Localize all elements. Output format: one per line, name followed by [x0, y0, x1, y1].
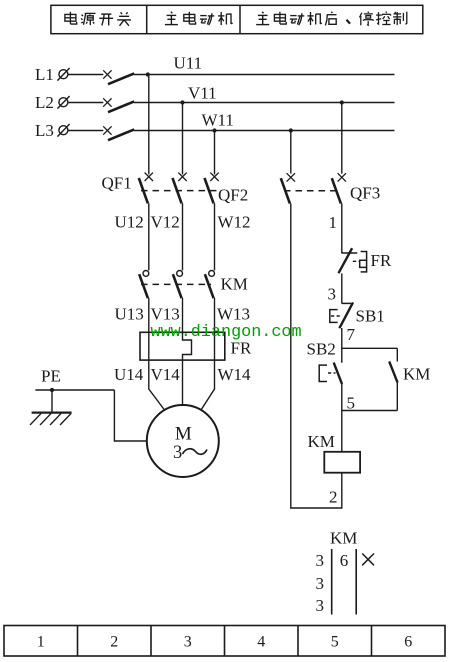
wire U11 drop to QF1 [148, 75, 150, 175]
svg-text:W13: W13 [217, 305, 250, 324]
button SB1 NC bar [342, 302, 351, 304]
KM contact table divider 1 [331, 549, 333, 615]
wire L2 to switch [68, 102, 103, 104]
terminal L1 [57, 68, 69, 81]
wire branch right drop [396, 348, 398, 361]
breaker QF3 pole 1 contact x [287, 173, 295, 181]
wire SB1 to node 7 [341, 328, 343, 363]
svg-text:U14: U14 [114, 365, 144, 384]
switch QS pole 3 blade [108, 129, 134, 140]
svg-text:3: 3 [316, 574, 325, 593]
FR NC contact bar [342, 252, 358, 254]
terminal L3 [57, 124, 69, 137]
switch QS pole 3 contact x [103, 126, 111, 134]
svg-text:QF2: QF2 [218, 186, 248, 205]
svg-text:3: 3 [328, 284, 337, 303]
svg-text:6: 6 [340, 551, 349, 570]
wire U11 [134, 74, 395, 76]
svg-text:2: 2 [329, 488, 338, 507]
svg-text:3: 3 [316, 596, 325, 615]
header cell3 label (CJK, main motor start/stop control) [256, 12, 407, 26]
svg-text:KM: KM [308, 432, 335, 451]
svg-text:KM: KM [330, 529, 357, 548]
KM contact table divider 2 [355, 549, 357, 615]
button SB2 blade [334, 363, 342, 384]
breaker QF1 pole 2 contact x [178, 173, 186, 181]
svg-text:L1: L1 [35, 65, 54, 84]
coil KM rectangle [324, 452, 360, 473]
svg-text:QF3: QF3 [350, 184, 380, 203]
FR trip actuator symbol [360, 251, 367, 273]
svg-text:www.diangon.com: www.diangon.com [151, 323, 302, 342]
wire L1 to switch [68, 74, 103, 76]
header cell2 label (CJK, main motor) [165, 12, 233, 25]
breaker QF1 pole 1 contact x [145, 173, 153, 181]
svg-text:4: 4 [257, 633, 265, 650]
wire control bottom return [290, 507, 342, 509]
svg-text:V11: V11 [188, 84, 217, 103]
svg-text:V13: V13 [151, 305, 180, 324]
junction dot L2/V11 left [180, 100, 184, 104]
wire V12 [182, 203, 184, 270]
switch QS pole 1 blade [108, 73, 134, 84]
svg-text:6: 6 [404, 633, 412, 650]
contactor KM linkage dashed [141, 283, 211, 285]
wire W13 [214, 298, 216, 332]
thermal relay FR heater right wire [214, 332, 216, 360]
contactor KM pole 1 fixed contact circle [143, 271, 149, 277]
breaker QF3 linkage dashed [284, 190, 339, 192]
bottom zone table frame [4, 626, 445, 657]
svg-text:V14: V14 [151, 365, 181, 384]
wire V14 [182, 360, 184, 405]
svg-text:QF1: QF1 [102, 174, 132, 193]
contactor KM pole 2 fixed contact circle [177, 271, 183, 277]
motor M1 circle [147, 405, 219, 477]
wire coil to node 2 [341, 473, 343, 508]
wire KM aux to branch bottom [396, 382, 398, 410]
svg-text:W14: W14 [218, 365, 252, 384]
breaker QF1 pole 1 blade [139, 178, 148, 203]
svg-text:PE: PE [41, 367, 61, 386]
header table frame [51, 5, 423, 33]
wire QF3 to FR contact [341, 203, 343, 253]
contactor KM pole 1 blade [139, 274, 148, 298]
FR actuator dashed link [353, 260, 359, 262]
breaker QF1 pole 2 blade [173, 178, 182, 203]
wire V11 drop to QF3 [341, 103, 343, 174]
wire V11 [134, 102, 395, 104]
svg-text:KM: KM [221, 275, 248, 294]
switch QS pole 1 contact x [103, 70, 111, 78]
svg-text:3: 3 [184, 633, 192, 650]
breaker QF3 pole 2 blade [332, 178, 341, 203]
svg-text:V12: V12 [151, 213, 180, 232]
contact KM aux blade [389, 361, 397, 382]
svg-text:5: 5 [347, 394, 356, 413]
svg-text:KM: KM [403, 365, 430, 384]
svg-text:U11: U11 [174, 53, 203, 72]
wire L3 to switch [68, 130, 103, 132]
svg-text:3: 3 [316, 551, 325, 570]
button SB1 actuator [330, 309, 338, 323]
svg-text:M: M [175, 424, 192, 445]
breaker QF3 pole 1 blade [281, 178, 290, 203]
breaker QF2 pole 3 blade [205, 178, 214, 203]
wire PE to motor frame [114, 390, 146, 441]
ground symbol bar [32, 412, 72, 414]
svg-text:3: 3 [173, 443, 182, 463]
wire V13 [182, 298, 184, 332]
wire SB2 to node 5 [341, 384, 343, 452]
contactor KM pole 2 blade [173, 274, 182, 298]
thermal relay FR box [140, 332, 225, 360]
breaker QF1-QF2 linkage dashed [141, 190, 218, 192]
svg-text:U13: U13 [115, 305, 144, 324]
junction dot L3/W11 left [212, 128, 216, 132]
svg-text:U12: U12 [115, 213, 144, 232]
thermal relay FR heater left wire [148, 332, 150, 360]
junction dot L1/U11 [146, 72, 150, 76]
svg-text:L3: L3 [35, 121, 54, 140]
wire PE horizontal [35, 389, 114, 391]
svg-text:FR: FR [371, 251, 392, 270]
contactor KM pole 3 blade [205, 274, 214, 298]
svg-text:7: 7 [347, 325, 356, 344]
FR NC contact blade [339, 248, 353, 273]
button SB2 actuator [319, 364, 327, 382]
svg-text:5: 5 [331, 633, 339, 650]
wire branch bottom [342, 410, 398, 412]
ground symbol stem [51, 390, 53, 412]
svg-text:SB1: SB1 [356, 307, 385, 326]
wire branch top [342, 347, 398, 349]
wire U12 [148, 203, 150, 270]
junction dot W11 control tap [289, 128, 293, 132]
switch QS pole 2 contact x [103, 98, 111, 106]
wire W11 drop to QF3 [290, 131, 292, 174]
junction dot PE [50, 388, 54, 392]
junction dot V11 control tap [340, 100, 344, 104]
contactor KM pole 3 fixed contact circle [209, 271, 215, 277]
wire control return left [290, 203, 292, 508]
terminal L2 [57, 96, 69, 109]
wire FR to SB1 [341, 273, 343, 303]
breaker QF2 pole 3 contact x [210, 173, 218, 181]
button SB2 actuator dashed link [328, 372, 336, 374]
wire V11 drop to QF1 [182, 103, 184, 175]
header cell1 label (CJK, power switch) [65, 12, 131, 26]
button SB1 actuator dashed link [331, 315, 341, 317]
svg-text:1: 1 [37, 633, 45, 650]
wire U14 [149, 360, 165, 410]
wire W12 [214, 203, 216, 270]
svg-text:SB2: SB2 [307, 340, 336, 359]
button SB1 blade [339, 302, 353, 328]
KM contact table value x [362, 554, 374, 566]
svg-text:2: 2 [110, 633, 118, 650]
wire U13 [148, 298, 150, 332]
ground symbol hatching [30, 414, 71, 426]
wire W11 [134, 130, 395, 132]
svg-text:W12: W12 [218, 213, 251, 232]
breaker QF3 pole 2 contact x [338, 173, 346, 181]
switch QS pole 2 blade [108, 101, 134, 112]
wire W14 [201, 360, 215, 410]
wire W11 drop to QF1 [214, 131, 216, 175]
thermal relay FR heater middle wire with jog [183, 332, 192, 360]
svg-text:1: 1 [329, 213, 338, 232]
svg-text:L2: L2 [35, 93, 54, 112]
svg-text:W11: W11 [202, 111, 234, 130]
